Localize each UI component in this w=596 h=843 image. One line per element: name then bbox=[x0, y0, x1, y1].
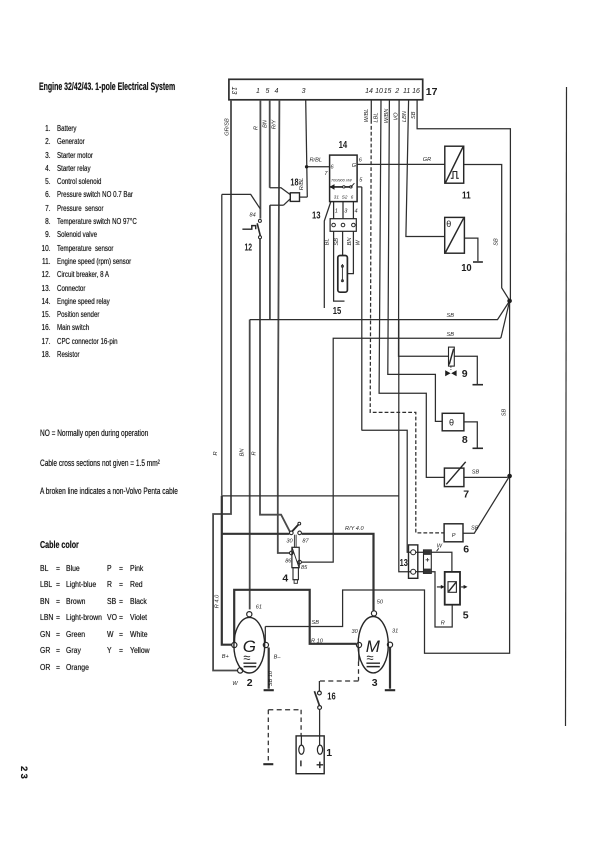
svg-text:84: 84 bbox=[250, 213, 256, 219]
svg-text:BN: BN bbox=[263, 119, 269, 128]
svg-text:11: 11 bbox=[462, 190, 471, 202]
svg-text:6: 6 bbox=[359, 158, 363, 164]
svg-text:2: 2 bbox=[247, 677, 253, 689]
svg-text:13: 13 bbox=[400, 557, 408, 569]
svg-text:W/BN: W/BN bbox=[384, 108, 390, 124]
svg-text:SB: SB bbox=[447, 313, 455, 319]
svg-text:30: 30 bbox=[352, 629, 359, 635]
svg-text:15: 15 bbox=[384, 88, 392, 95]
svg-text:GR/SB: GR/SB bbox=[225, 118, 231, 136]
svg-text:5: 5 bbox=[463, 610, 469, 622]
svg-text:8: 8 bbox=[462, 434, 468, 446]
svg-text:VO: VO bbox=[394, 112, 400, 121]
svg-text:R: R bbox=[213, 451, 219, 455]
svg-text:5: 5 bbox=[265, 88, 269, 95]
svg-text:11: 11 bbox=[403, 88, 410, 95]
svg-text:86: 86 bbox=[285, 559, 292, 565]
svg-text:W: W bbox=[232, 681, 238, 687]
svg-text:S2: S2 bbox=[342, 194, 348, 199]
svg-text:SB: SB bbox=[471, 526, 479, 532]
svg-text:1: 1 bbox=[335, 209, 338, 215]
svg-text:SB: SB bbox=[447, 332, 455, 338]
svg-text:SB: SB bbox=[494, 238, 500, 246]
svg-text:16: 16 bbox=[412, 88, 420, 95]
svg-text:≈: ≈ bbox=[243, 650, 250, 665]
svg-text:W: W bbox=[437, 544, 443, 550]
svg-text:85: 85 bbox=[301, 565, 308, 571]
svg-text:6: 6 bbox=[463, 544, 469, 556]
svg-text:SB: SB bbox=[502, 409, 508, 417]
svg-text:50: 50 bbox=[377, 600, 384, 606]
svg-text:SB: SB bbox=[472, 470, 480, 476]
svg-text:16: 16 bbox=[327, 691, 336, 703]
svg-text:SB: SB bbox=[411, 111, 417, 119]
svg-text:G: G bbox=[352, 163, 357, 169]
svg-text:SB 10: SB 10 bbox=[268, 670, 274, 686]
svg-text:4: 4 bbox=[274, 88, 278, 95]
svg-text:P: P bbox=[452, 533, 456, 539]
svg-text:14: 14 bbox=[365, 88, 373, 95]
svg-text:BL: BL bbox=[324, 238, 330, 245]
svg-text:SB: SB bbox=[334, 238, 340, 246]
svg-text:5: 5 bbox=[359, 178, 363, 184]
svg-text:6: 6 bbox=[351, 194, 354, 199]
svg-text:12: 12 bbox=[245, 242, 253, 254]
svg-text:7: 7 bbox=[324, 171, 328, 177]
svg-text:18: 18 bbox=[290, 177, 298, 189]
svg-text:4: 4 bbox=[282, 572, 288, 584]
svg-text:10: 10 bbox=[375, 88, 383, 95]
svg-text:BN: BN bbox=[240, 448, 246, 457]
svg-text:R/Y: R/Y bbox=[272, 119, 278, 130]
svg-text:14: 14 bbox=[339, 139, 348, 151]
svg-text:W: W bbox=[355, 239, 361, 245]
svg-text:3: 3 bbox=[302, 88, 306, 95]
svg-text:1: 1 bbox=[256, 88, 260, 95]
svg-text:1: 1 bbox=[326, 747, 332, 759]
svg-text:7: 7 bbox=[463, 489, 469, 501]
svg-text:LBN: LBN bbox=[402, 110, 408, 122]
svg-text:R 4.0: R 4.0 bbox=[214, 594, 220, 608]
svg-text:R: R bbox=[251, 451, 257, 455]
svg-text:2: 2 bbox=[394, 88, 399, 95]
svg-text:10: 10 bbox=[461, 262, 472, 274]
svg-text:R/Y 4.0: R/Y 4.0 bbox=[345, 526, 364, 532]
svg-text:4: 4 bbox=[355, 209, 358, 215]
svg-text:700/900 r/W: 700/900 r/W bbox=[331, 179, 352, 183]
svg-text:13: 13 bbox=[230, 87, 237, 95]
svg-text:θ: θ bbox=[449, 418, 454, 428]
svg-text:B–: B– bbox=[274, 655, 282, 661]
svg-text:13: 13 bbox=[312, 210, 321, 222]
svg-text:87: 87 bbox=[302, 538, 309, 544]
svg-text:6: 6 bbox=[331, 165, 335, 171]
svg-text:15: 15 bbox=[333, 305, 342, 317]
svg-text:≈: ≈ bbox=[366, 650, 373, 665]
svg-text:R/BL: R/BL bbox=[310, 158, 322, 164]
svg-text:3: 3 bbox=[372, 677, 378, 689]
svg-text:LBL: LBL bbox=[374, 113, 380, 123]
svg-text:61: 61 bbox=[256, 605, 262, 611]
svg-text:W/BL: W/BL bbox=[364, 109, 370, 123]
svg-text:31: 31 bbox=[392, 629, 398, 635]
svg-text:SB: SB bbox=[312, 620, 320, 626]
svg-text:9: 9 bbox=[462, 368, 468, 380]
svg-text:BN: BN bbox=[347, 237, 353, 246]
svg-text:R: R bbox=[441, 621, 445, 627]
svg-text:B+: B+ bbox=[222, 654, 230, 660]
svg-text:GR: GR bbox=[423, 157, 431, 163]
svg-text:R 10: R 10 bbox=[311, 639, 324, 645]
svg-text:3: 3 bbox=[344, 209, 348, 215]
svg-text:R: R bbox=[253, 126, 259, 130]
svg-text:30: 30 bbox=[286, 538, 293, 544]
svg-text:R/BL: R/BL bbox=[299, 178, 305, 190]
svg-text:17: 17 bbox=[426, 86, 438, 98]
svg-text:31: 31 bbox=[334, 194, 340, 199]
svg-text:θ: θ bbox=[446, 219, 451, 229]
